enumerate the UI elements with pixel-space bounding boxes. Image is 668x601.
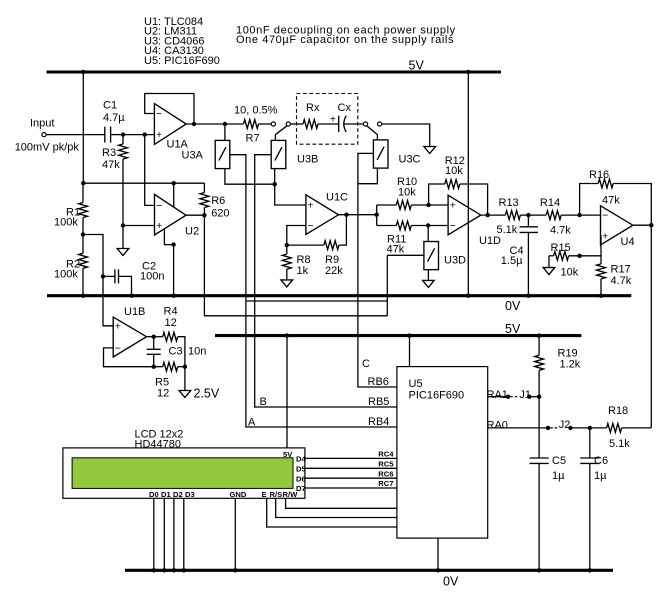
svg-text:RC7: RC7	[378, 479, 393, 488]
wire U1C output	[339, 214, 377, 216]
ground below U3D	[423, 280, 435, 287]
wire U4+ vertical	[600, 236, 602, 264]
wire split bracket	[376, 205, 378, 226]
svg-text:C: C	[362, 358, 370, 370]
junction C2 to 0V	[129, 294, 133, 298]
resistor R8	[282, 245, 291, 280]
junction LCD D3	[182, 568, 186, 572]
svg-text:D0: D0	[149, 490, 159, 499]
resistor R17	[597, 264, 606, 296]
svg-text:U3D: U3D	[444, 255, 466, 267]
wire Cx to contact	[344, 123, 363, 125]
svg-text:B: B	[260, 396, 267, 408]
junction U2 out / R6	[202, 213, 206, 217]
comparator U2	[155, 194, 187, 235]
svg-text:R16: R16	[589, 169, 609, 181]
svg-text:E: E	[262, 490, 267, 499]
resistor R7	[225, 120, 271, 129]
junction R19 on 5V rail	[537, 333, 541, 337]
junction R10/R11 split	[375, 213, 379, 217]
svg-text:+: +	[115, 321, 121, 333]
wire input to C1	[46, 134, 105, 136]
capacitor C1	[105, 127, 111, 143]
wire 5V drop left	[82, 72, 84, 183]
op-amp U1C	[306, 195, 339, 235]
svg-text:U3B: U3B	[297, 154, 318, 166]
svg-text:R17: R17	[611, 264, 631, 276]
resistor Rx	[303, 120, 339, 129]
wire U4 output	[633, 224, 651, 226]
junction R14/R16	[577, 213, 581, 217]
wire PIC VSS	[437, 538, 439, 570]
svg-text:HD44780: HD44780	[135, 438, 181, 450]
svg-text:+: +	[156, 220, 162, 232]
resistor R10	[377, 201, 448, 210]
svg-text:RA1: RA1	[487, 389, 508, 401]
svg-text:47k: 47k	[387, 243, 405, 255]
svg-text:RB6: RB6	[368, 376, 389, 388]
parts list text	[144, 16, 220, 67]
svg-text:GND: GND	[230, 490, 247, 499]
svg-text:10k: 10k	[561, 267, 579, 279]
op-amp U1B	[113, 317, 146, 357]
wire U2 output	[186, 214, 204, 216]
svg-text:5.1k: 5.1k	[497, 224, 518, 236]
wire LCD D0 to 0V	[153, 498, 155, 570]
svg-text:5V: 5V	[505, 322, 521, 336]
wire LCD D2 to 0V	[173, 498, 175, 570]
wire to U2 inverting input	[145, 135, 155, 206]
svg-text:12: 12	[157, 388, 169, 400]
svg-text:R/W: R/W	[283, 490, 299, 499]
junction R15/R17 node	[577, 254, 581, 258]
svg-text:RA0: RA0	[487, 420, 508, 432]
op-amp U1D	[448, 195, 481, 235]
switch lever U3B	[275, 126, 287, 135]
analog switch U3D	[424, 242, 439, 270]
wire LCD to PIC RC6	[305, 477, 397, 479]
svg-text:D7: D7	[296, 484, 306, 493]
svg-text:10n: 10n	[188, 346, 206, 358]
wire U4 out to R18	[650, 225, 652, 428]
svg-text:−: −	[115, 343, 121, 355]
svg-text:RC6: RC6	[378, 469, 393, 478]
junction C1/R3	[121, 132, 125, 136]
svg-text:1k: 1k	[297, 265, 309, 277]
svg-text:C3: C3	[169, 346, 183, 358]
wire LCD GND to 0V	[234, 498, 236, 570]
svg-text:R4: R4	[164, 306, 178, 318]
svg-text:U1B: U1B	[124, 306, 145, 318]
wire 5V feed horizontal	[83, 182, 204, 184]
wire to 2.5V ground	[184, 367, 186, 391]
junction C6 to 0V	[588, 568, 592, 572]
junction J2 left	[546, 426, 550, 430]
junction U2 V- on 0V rail	[171, 294, 175, 298]
svg-text:U1C: U1C	[326, 192, 348, 204]
wire U3B bottom to sense node	[274, 169, 276, 185]
junction LCD D0	[152, 568, 156, 572]
junction LCD 5V on rail	[285, 333, 289, 337]
svg-text:C5: C5	[552, 455, 566, 467]
wire U3D control	[387, 254, 424, 256]
jumper J1	[510, 396, 519, 398]
LCD data pin labels D4-D7	[296, 455, 306, 494]
switch contact right of U3B bypass	[286, 122, 290, 126]
svg-text:4.7k: 4.7k	[550, 224, 571, 236]
resistor R16	[580, 179, 652, 225]
svg-text:U4: U4	[621, 236, 635, 248]
junction R4/R5	[183, 365, 187, 369]
junction LCD D2	[172, 568, 176, 572]
wire U1A out to U3A top	[224, 124, 226, 140]
junction C4 to 0V	[526, 294, 530, 298]
svg-text:1µ: 1µ	[552, 470, 565, 482]
wire U2 non-inverting input	[123, 225, 155, 227]
svg-text:5V: 5V	[283, 450, 293, 459]
junction R13/C4	[526, 213, 530, 217]
junction U1B out	[152, 335, 156, 339]
junction U2 V+	[172, 181, 176, 185]
svg-text:0V: 0V	[443, 575, 459, 589]
junction 5V feed	[81, 181, 85, 185]
svg-text:2.5V: 2.5V	[194, 387, 220, 401]
svg-text:RC5: RC5	[378, 459, 394, 468]
ground below R8	[281, 280, 293, 287]
svg-text:One 470µF capacitor on the sup: One 470µF capacitor on the supply rails	[236, 34, 454, 46]
LCD module HD44780	[63, 448, 305, 498]
junction sense node	[273, 182, 277, 186]
wire 5V to LCD	[286, 336, 288, 448]
svg-text:22k: 22k	[325, 265, 343, 277]
ground after Rx Cx	[424, 147, 436, 154]
svg-text:Input: Input	[30, 118, 54, 130]
svg-text:C6: C6	[594, 455, 608, 467]
junction R12 tap	[426, 203, 430, 207]
resistor R19	[535, 336, 544, 397]
wire U1B+ stub	[104, 325, 114, 327]
resistor R3	[119, 135, 128, 159]
capacitor C6	[580, 428, 599, 570]
svg-text:PIC16F690: PIC16F690	[409, 390, 465, 402]
wire R15 to ground	[548, 256, 550, 268]
wire U3A control to RB4 (net A)	[230, 155, 397, 427]
0V rail bottom	[125, 569, 613, 572]
junction U1D out	[485, 213, 489, 217]
junction R1/R2	[81, 232, 85, 236]
wire lever to U3C top	[376, 135, 378, 140]
svg-text:R7: R7	[246, 133, 260, 145]
svg-text:RB5: RB5	[368, 396, 389, 408]
jumper J2	[550, 427, 558, 429]
ground near R3	[117, 249, 129, 256]
wire R3 to U2+ node	[122, 159, 124, 226]
op-amp U4	[601, 206, 633, 245]
junction LCD GND	[233, 568, 237, 572]
svg-text:−: −	[156, 200, 162, 212]
wire U3B control to RB5 (net B)	[255, 155, 397, 407]
resistor R4	[154, 332, 185, 366]
svg-text:−: −	[450, 220, 456, 232]
wire divider to U1B+	[83, 235, 113, 326]
svg-text:5.1k: 5.1k	[609, 438, 630, 450]
junction on 0V rail	[466, 294, 470, 298]
svg-text:+: +	[602, 230, 608, 242]
svg-text:R14: R14	[540, 197, 560, 209]
junction R19/C5/RA1	[537, 395, 541, 399]
svg-text:5V: 5V	[409, 59, 425, 73]
wire U3C control to RB6 (net C)	[358, 153, 397, 387]
svg-text:100n: 100n	[140, 271, 164, 283]
wire net A to U3D control	[246, 300, 387, 302]
analog switch U3A	[215, 140, 230, 168]
5V rail top	[47, 70, 502, 73]
svg-text:A: A	[248, 417, 256, 429]
resistor R9	[287, 215, 347, 250]
junction R2 to 0V	[81, 294, 85, 298]
switch lever U3C	[367, 126, 378, 135]
switch contact left of U3C	[363, 122, 367, 126]
svg-text:R15: R15	[551, 242, 571, 254]
capacitor C2	[103, 269, 132, 295]
resistor R12	[429, 180, 488, 216]
resistor R5	[154, 362, 185, 371]
svg-text:100k: 100k	[54, 269, 78, 281]
svg-text:R18: R18	[608, 405, 628, 417]
capacitor C5	[530, 397, 549, 571]
wire contact to Rx	[290, 123, 303, 125]
svg-text:47k: 47k	[602, 195, 620, 207]
wire 5V drop right	[467, 72, 469, 296]
junction R9 feedback	[344, 213, 348, 217]
wire LCD R/W to PIC	[286, 498, 397, 508]
svg-text:RC4: RC4	[378, 450, 394, 459]
svg-text:4.7µ: 4.7µ	[103, 112, 125, 124]
junction R11/U3D	[426, 223, 430, 227]
resistor R13	[505, 211, 528, 220]
svg-text:R6: R6	[211, 195, 225, 207]
junction R8/R9	[285, 243, 289, 247]
svg-text:+: +	[156, 129, 162, 141]
svg-text:100mV pk/pk: 100mV pk/pk	[15, 141, 80, 153]
svg-text:U2: U2	[185, 226, 199, 238]
resistor R11	[377, 221, 448, 230]
svg-text:−: −	[156, 108, 162, 120]
wire lever to U3B top	[274, 135, 276, 141]
switch contact left of U3B bypass	[271, 122, 275, 126]
wire U2 output to net A link	[204, 215, 387, 316]
svg-text:R/S: R/S	[270, 490, 283, 499]
wire U3D control vertical	[386, 255, 388, 315]
svg-text:620: 620	[211, 208, 229, 220]
svg-text:+: +	[450, 200, 456, 212]
junction J2 right	[568, 426, 572, 430]
wire U1A feedback	[145, 94, 194, 125]
resistor R18	[607, 424, 652, 433]
svg-text:−: −	[308, 220, 314, 232]
svg-text:U5: U5	[409, 378, 423, 390]
wire LCD to PIC RC4	[305, 457, 397, 459]
svg-text:R3: R3	[102, 147, 116, 159]
wire to ground	[122, 226, 124, 249]
junction C3/R5	[152, 365, 156, 369]
svg-text:12: 12	[165, 317, 177, 329]
junction C6/RA0	[588, 426, 592, 430]
svg-text:U3C: U3C	[399, 154, 421, 166]
wire U2 V- to 0V	[173, 245, 175, 296]
wire LCD to PIC RC7	[305, 487, 397, 489]
svg-text:C1: C1	[103, 100, 117, 112]
wire J1 to R19/C5	[529, 396, 539, 398]
junction PIC VDD on rail	[407, 333, 411, 337]
junction U2- tap	[143, 132, 147, 136]
svg-text:RB4: RB4	[368, 416, 389, 428]
svg-text:Rx: Rx	[306, 102, 320, 114]
svg-text:10k: 10k	[398, 187, 416, 199]
wire J2 to R18	[570, 427, 607, 429]
resistor R15	[549, 251, 601, 260]
wire PIC VDD	[409, 336, 411, 367]
resistor R14	[528, 211, 600, 220]
svg-text:D6: D6	[296, 474, 306, 483]
junction R17 to 0V	[599, 294, 603, 298]
svg-text:0V: 0V	[505, 299, 521, 313]
svg-text:D2: D2	[173, 490, 183, 499]
svg-text:4.7k: 4.7k	[611, 275, 632, 287]
wire U3A bottom to sense node	[225, 169, 275, 185]
junction U1A feedback	[192, 122, 196, 126]
wire U1C inverting input	[287, 226, 306, 246]
wire node to U1A+	[123, 134, 154, 136]
svg-text:R13: R13	[499, 197, 519, 209]
svg-text:−: −	[602, 210, 608, 222]
wire R11 node to U3D	[427, 226, 429, 242]
wire U3D to ground	[427, 270, 429, 281]
svg-text:100k: 100k	[54, 217, 78, 229]
svg-text:10, 0.5%: 10, 0.5%	[234, 105, 278, 117]
wire sense node to U1C+	[275, 184, 306, 205]
5V rail lower	[215, 334, 581, 337]
svg-text:1µ: 1µ	[594, 470, 607, 482]
resistor R1	[79, 183, 88, 234]
wire U1A output	[186, 123, 225, 125]
wire LCD to PIC RC5	[305, 467, 397, 469]
svg-text:1.2k: 1.2k	[560, 359, 581, 371]
wire U2 V- pin	[164, 228, 173, 244]
svg-text:D3: D3	[185, 490, 195, 499]
wire LCD D3 to 0V	[183, 498, 185, 570]
switch contact right of U3C	[378, 122, 382, 126]
junction on 5V rail left	[81, 70, 85, 74]
junction J1 right	[527, 395, 531, 399]
ground left of R15	[543, 268, 555, 275]
wire LCD E to PIC	[267, 498, 397, 527]
analog switch U3B	[271, 140, 286, 168]
wire U2 V+ pin	[173, 183, 175, 207]
wire U1B output	[147, 336, 154, 338]
wire U3C bottom stub	[358, 168, 378, 184]
junction U1A out / U3A	[223, 122, 227, 126]
svg-text:1.5µ: 1.5µ	[501, 255, 523, 267]
svg-text:+: +	[308, 200, 314, 212]
wire U1D output	[481, 214, 506, 216]
resistor R2	[79, 235, 88, 296]
junction C5 to 0V	[537, 568, 541, 572]
wire C1 to node	[111, 134, 124, 136]
svg-text:+: +	[330, 115, 336, 126]
wire contact to ground	[382, 124, 430, 147]
capacitor C4	[520, 215, 539, 296]
wire RA1 to J1	[488, 396, 508, 398]
svg-text:J2: J2	[559, 419, 571, 431]
capacitor C3	[147, 337, 161, 367]
input terminal	[42, 133, 46, 137]
PIC RC pin labels	[378, 450, 394, 489]
note text	[236, 25, 456, 47]
junction on 5V rail right	[466, 70, 470, 74]
analog switch U3C	[373, 140, 388, 168]
svg-text:Cx: Cx	[338, 102, 352, 114]
capacitor Cx	[330, 115, 346, 132]
wire U1B feedback	[104, 348, 154, 367]
junction J1 left	[506, 395, 510, 399]
0V rail middle	[47, 294, 631, 297]
DUT dashed box	[297, 94, 358, 145]
wire LCD R/S to PIC	[276, 498, 397, 517]
junction PIC VSS	[436, 568, 440, 572]
microcontroller U5 PIC16F690	[397, 367, 488, 538]
svg-text:D1: D1	[161, 490, 171, 499]
svg-text:47k: 47k	[102, 159, 120, 171]
junction LCD D1	[162, 568, 166, 572]
junction C2 tap	[101, 274, 105, 278]
junction R3/U2+	[121, 223, 125, 227]
junction U2 V- bend	[171, 242, 175, 246]
ground 2.5V reference	[179, 391, 191, 398]
svg-text:10k: 10k	[445, 165, 463, 177]
resistor R6	[200, 183, 209, 215]
wire RA0 to J2	[488, 427, 548, 429]
wire LCD D1 to 0V	[163, 498, 165, 570]
svg-text:U3A: U3A	[182, 150, 204, 162]
junction U4 out	[649, 223, 653, 227]
op-amp U1A	[154, 104, 186, 145]
svg-text:U1D: U1D	[479, 235, 501, 247]
LCD bottom pin labels	[149, 490, 298, 499]
svg-text:U5: PIC16F690: U5: PIC16F690	[144, 55, 220, 67]
